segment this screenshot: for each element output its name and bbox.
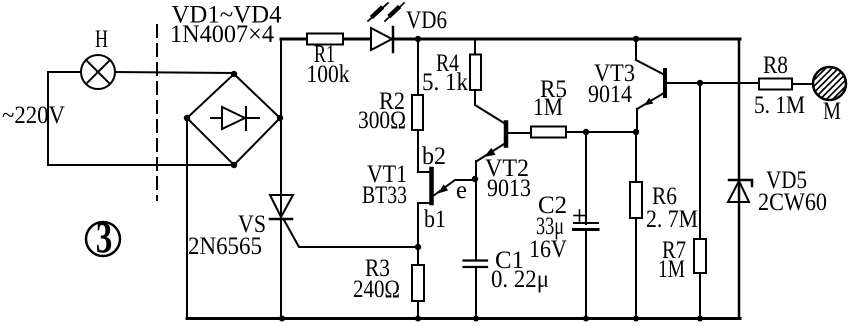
svg-text:1M: 1M — [533, 94, 563, 121]
svg-text:b2: b2 — [422, 143, 446, 170]
svg-text:9014: 9014 — [588, 81, 632, 108]
svg-text:H: H — [95, 26, 108, 53]
svg-text:2. 7M: 2. 7M — [646, 206, 698, 233]
svg-text:M: M — [823, 98, 841, 125]
svg-text:9013: 9013 — [487, 175, 531, 202]
svg-text:b1: b1 — [424, 206, 446, 233]
svg-text:3: 3 — [96, 213, 113, 262]
svg-text:2CW60: 2CW60 — [758, 189, 827, 216]
svg-text:240Ω: 240Ω — [353, 276, 400, 303]
svg-text:300Ω: 300Ω — [358, 107, 406, 134]
svg-text:2N6565: 2N6565 — [188, 233, 262, 260]
svg-text:BT33: BT33 — [362, 182, 407, 209]
svg-text:5. 1k: 5. 1k — [422, 69, 468, 96]
svg-text:1N4007×4: 1N4007×4 — [170, 21, 274, 48]
svg-text:16V: 16V — [529, 236, 567, 263]
svg-text:0. 22μ: 0. 22μ — [491, 266, 549, 293]
svg-text:~220V: ~220V — [2, 102, 65, 129]
svg-text:e: e — [456, 177, 467, 204]
svg-text:5. 1M: 5. 1M — [754, 92, 805, 119]
svg-text:100k: 100k — [307, 61, 350, 88]
svg-text:1M: 1M — [658, 256, 685, 283]
svg-text:R8: R8 — [763, 52, 788, 79]
svg-text:VD6: VD6 — [406, 7, 447, 34]
